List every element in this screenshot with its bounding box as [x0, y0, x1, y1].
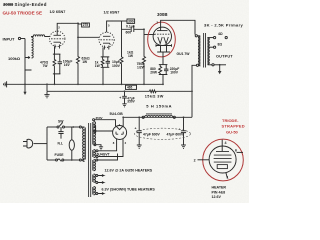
- 300B grid (dashed): [154, 33, 170, 35]
- resistor 750k grid leak GU50 (zigzag): [143, 29, 146, 84]
- V2 filament hooks: [116, 132, 123, 135]
- B+ rail: [123, 116, 192, 118]
- T1 12.6V winding: [94, 160, 96, 171]
- wire input to pot: [21, 38, 25, 40]
- rectifier V2 envelope: [113, 126, 127, 140]
- wire to 300B grid: [144, 34, 155, 36]
- wire plate corner down: [122, 21, 131, 29]
- T2 secondary tap 8R: [208, 46, 214, 48]
- wire 300B plate to OPT: [161, 20, 195, 34]
- cathode bypass cap 220uF: [164, 65, 168, 75]
- ground bus (signal): [5, 83, 163, 85]
- red circle GU-50 basing diagram: [203, 139, 244, 181]
- dashed can enclosure: [135, 128, 191, 139]
- V1a heater stubs: [55, 45, 60, 49]
- T1 core: [89, 123, 91, 197]
- wire V2 plate B from HV bottom: [96, 130, 113, 132]
- heater tap row 3: [96, 182, 98, 184]
- wire V2 cathode to B+: [122, 117, 124, 126]
- T2 primary winding: [198, 36, 200, 66]
- voltage label box 275: [78, 23, 82, 25]
- T1 HV secondary: [94, 122, 96, 145]
- wire cathode network to bus: [53, 74, 61, 84]
- GU-50 grid 3: [214, 154, 232, 156]
- choke L1 winding: [145, 115, 173, 117]
- ground symbol C2: [181, 145, 186, 148]
- winding body fills: [84, 128, 86, 160]
- V1b cathode bypass cap 10uF: [106, 57, 110, 67]
- wire V1b cathode net to bus: [101, 67, 110, 84]
- grid resistor (coil) to V1a: [32, 35, 50, 37]
- decoupling capacitor 47uF 350V: [122, 91, 127, 103]
- red circle around output tube: [148, 22, 176, 57]
- voltage label box 465: [126, 85, 137, 89]
- triode V1a (1/2 6SN7) envelope: [50, 31, 65, 46]
- NFB resistor 15k (zigzag): [150, 90, 157, 93]
- voltage label box 390: [122, 20, 128, 22]
- T1 6.3V winding a: [94, 174, 96, 182]
- line capacitor across mains: [58, 127, 63, 139]
- node coupling to grid leak: [143, 28, 145, 30]
- T2 secondary common tap: [208, 64, 212, 66]
- ground symbol C1: [137, 145, 142, 150]
- T2 secondary winding: [207, 38, 209, 65]
- V2 filament wires to 5V winding: [98, 139, 123, 157]
- T2 core: [204, 33, 206, 68]
- GU-50 grid 1: [214, 161, 232, 163]
- filter cap C1 47uF 600V: [137, 117, 142, 145]
- node cap2: [183, 116, 185, 118]
- T1 5V winding: [94, 150, 96, 158]
- wire B+ drop to rail: [192, 65, 196, 117]
- GU-50 tube envelope: [209, 146, 236, 173]
- resistor 62k plate load (zigzag): [77, 37, 80, 84]
- 300B filament: [158, 37, 169, 44]
- GU-50 grid 2: [214, 158, 232, 160]
- wire HV top tap: [94, 126, 96, 133]
- V1b cathode: [103, 43, 110, 45]
- triode V1b (1/2 6SN7) envelope: [99, 32, 114, 47]
- power transformer T1 primary winding: [83, 127, 85, 161]
- ground symbol left (chassis, rotated): [4, 81, 7, 87]
- chassis ground at output common: [219, 65, 221, 71]
- ground symbol below cap: [122, 104, 126, 107]
- V1a grid (dashed): [51, 38, 64, 40]
- V1b cathode resistor 1k (zigzag): [101, 47, 110, 57]
- 300B cathode bar with ticks: [156, 44, 172, 46]
- GU-50 pin 2 stub: [198, 159, 210, 161]
- HV center tap to ground: [94, 144, 96, 146]
- wire V1b plate riser: [107, 21, 122, 32]
- GU-50 pin 1 stub: [226, 172, 228, 178]
- cathode node bar: [159, 64, 168, 66]
- 300B cathode drops: [157, 46, 170, 65]
- choke L1 terminals: [142, 116, 144, 118]
- neon lamp NL: [71, 127, 73, 140]
- node cap1: [138, 116, 140, 118]
- GU-50 cathode: [217, 165, 227, 169]
- ground symbol on NFB line left: [44, 92, 49, 98]
- V1b plate: [103, 35, 110, 37]
- 300B plate: [157, 30, 167, 32]
- heater tap row 1: [96, 159, 98, 161]
- GU-50 pin 6 stub: [237, 151, 243, 153]
- V1b heater stubs: [104, 46, 108, 50]
- T1 6.3V winding b: [94, 187, 96, 195]
- GU-50 plate lead: [221, 140, 223, 152]
- chassis arrow ground under pot return: [24, 84, 26, 92]
- V2 plates (top notch): [116, 126, 123, 129]
- GU-50 plate: [216, 151, 229, 153]
- wire node to V1b grid: [78, 23, 99, 37]
- wire V1a plate riser: [57, 23, 78, 35]
- T2 secondary tap 16R: [208, 37, 214, 39]
- V1a cathode resistor 470R (zigzag): [53, 46, 61, 54]
- output transformer T2 primary terminal: [195, 35, 197, 37]
- feedback / speaker-common line: [47, 84, 192, 91]
- wire cathode net to bus: [159, 75, 168, 85]
- V1b grid (dashed): [100, 39, 112, 41]
- resistor 1k (zigzag) to bus: [120, 29, 123, 84]
- V1a cathode: [54, 42, 62, 44]
- wire pot bottom to ground bus: [24, 70, 26, 84]
- wire V2 plate A from HV top: [95, 120, 116, 127]
- bus junction dots: [24, 83, 26, 85]
- potentiometer 100k wiper arrow: [25, 57, 30, 59]
- T2 primary bottom terminal: [199, 65, 200, 67]
- AC plug P1: [23, 142, 27, 147]
- cathode resistor 880R (zigzag): [159, 65, 162, 75]
- output tube 300B/GU50 envelope: [153, 27, 171, 45]
- potentiometer 100k body: [32, 37, 34, 58]
- wire wiper line: [25, 39, 32, 71]
- mains split: [46, 127, 48, 160]
- V1a plate: [54, 34, 62, 36]
- node V1a plate / V1b grid junction: [77, 22, 79, 24]
- heater tap row 4: [96, 193, 98, 195]
- V1a cathode bypass capacitor 100uF: [58, 54, 62, 74]
- heater tap row 2: [96, 175, 98, 177]
